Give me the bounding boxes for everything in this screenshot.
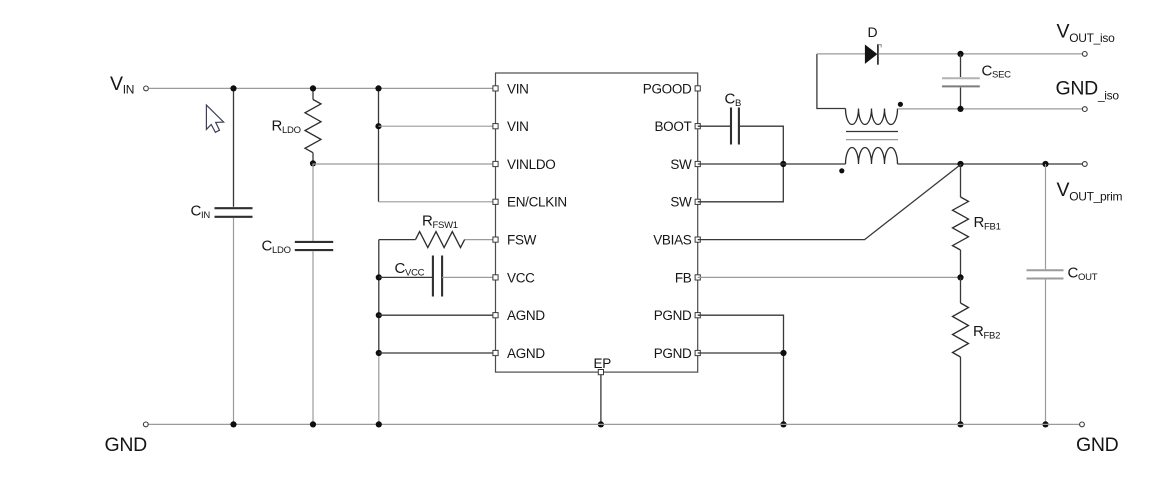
node VOUT_prim terminal bbox=[1082, 162, 1087, 167]
node VOUT_iso terminal bbox=[1082, 52, 1087, 57]
wire EN/CLKIN bbox=[379, 201, 496, 203]
pin AGND (left 8) bbox=[493, 350, 498, 355]
svg-text:VIN: VIN bbox=[507, 119, 529, 134]
wire AGND1 bbox=[379, 314, 496, 316]
wire diode anode bbox=[817, 53, 865, 55]
svg-text:AGND: AGND bbox=[507, 346, 545, 361]
resistor R_FSW1 bbox=[465, 239, 496, 241]
node junction SW/R_FB1 bbox=[957, 161, 963, 167]
wire GND rail bbox=[148, 423, 1079, 425]
pin EN/CLKIN (left 4) bbox=[493, 199, 498, 204]
pin VCC (left 6) bbox=[493, 275, 498, 280]
node junction ground/AGND rail bbox=[376, 421, 382, 427]
svg-text:VCC: VCC bbox=[507, 270, 535, 285]
svg-text:EP: EP bbox=[594, 356, 612, 371]
pin EP bbox=[598, 370, 603, 375]
mouse cursor bbox=[206, 105, 223, 132]
node junction BOOT/SW bbox=[780, 161, 786, 167]
IC U1 body bbox=[496, 73, 698, 372]
svg-text:GND: GND bbox=[1076, 434, 1119, 456]
pin VIN (left 1) bbox=[493, 86, 498, 91]
transformer T1 secondary polarity dot bbox=[898, 102, 903, 107]
wire VBIAS bbox=[698, 165, 961, 240]
node junction VIN2 bbox=[375, 123, 381, 129]
node junction VIN/C_IN bbox=[230, 85, 236, 91]
svg-text:SW: SW bbox=[670, 157, 692, 172]
node junction SW/C_OUT bbox=[1042, 161, 1048, 167]
wire EP to ground bbox=[600, 375, 602, 425]
svg-text:VBIAS: VBIAS bbox=[653, 233, 692, 248]
capacitor C_OUT bbox=[1045, 164, 1047, 269]
pin PGOOD (right 1) bbox=[695, 86, 700, 91]
svg-text:AGND: AGND bbox=[507, 308, 545, 323]
node GND_iso terminal bbox=[1082, 107, 1087, 112]
svg-text:SW: SW bbox=[670, 195, 692, 210]
capacitor C_SEC bbox=[960, 54, 962, 77]
node junction PGND bbox=[780, 350, 786, 356]
node junction ground/C_IN bbox=[230, 421, 236, 427]
node junction ground/C_LDO bbox=[310, 421, 316, 427]
svg-text:FB: FB bbox=[675, 270, 692, 285]
wire C_IN bottom stem bbox=[233, 218, 235, 424]
wire C_IN top stem bbox=[233, 88, 235, 206]
pin BOOT (right 2) bbox=[695, 124, 700, 129]
svg-text:FSW: FSW bbox=[507, 233, 537, 248]
wire PGND1 bbox=[698, 315, 784, 353]
node GND left terminal bbox=[143, 422, 148, 427]
svg-text:BOOT: BOOT bbox=[654, 119, 691, 134]
node junction VIN/R_LDO bbox=[310, 85, 316, 91]
transformer T1 primary winding bbox=[846, 148, 898, 165]
diode D bbox=[865, 45, 878, 64]
capacitor C_VCC bbox=[379, 276, 433, 278]
svg-text:PGOOD: PGOOD bbox=[643, 81, 692, 96]
wire VINLDO bbox=[313, 163, 496, 165]
pin PGND (right 8) bbox=[695, 350, 700, 355]
svg-text:EN/CLKIN: EN/CLKIN bbox=[507, 195, 567, 210]
pin VBIAS (right 5) bbox=[695, 237, 700, 242]
wire C_LDO stem bbox=[312, 163, 314, 240]
node junction FB bbox=[957, 274, 963, 280]
svg-text:VINLDO: VINLDO bbox=[507, 157, 555, 172]
node junction C_SEC top bbox=[957, 51, 963, 57]
pin PGND (right 7) bbox=[695, 313, 700, 318]
wire AGND2 bbox=[379, 352, 496, 354]
wire AGND rail bbox=[378, 240, 380, 353]
transformer T1 core bbox=[846, 131, 898, 133]
node junction C_SEC bottom bbox=[957, 106, 963, 112]
wire secondary left leg bbox=[817, 54, 846, 109]
capacitor C_IN bbox=[215, 207, 253, 209]
capacitor C_B bbox=[730, 108, 732, 145]
pin SW (right 4) bbox=[695, 199, 700, 204]
wire diode cathode to VOUT_iso bbox=[879, 53, 1083, 55]
svg-text:GND: GND bbox=[105, 434, 148, 456]
svg-text:PGND: PGND bbox=[654, 308, 692, 323]
node junction R_LDO/VINLDO bbox=[310, 160, 316, 166]
pin VINLDO (left 3) bbox=[493, 161, 498, 166]
svg-text:D: D bbox=[868, 24, 878, 40]
wire C_LDO to ground bbox=[312, 251, 314, 424]
resistor R_LDO bbox=[312, 88, 314, 99]
pin FB (right 6) bbox=[695, 275, 700, 280]
transformer T1 secondary winding bbox=[846, 109, 898, 125]
wire PGND2 to ground bbox=[698, 353, 784, 424]
wire VIN pin2 bbox=[379, 125, 496, 127]
pin VIN (left 2) bbox=[493, 124, 498, 129]
wire BOOT bbox=[698, 125, 731, 127]
pin AGND (left 7) bbox=[493, 313, 498, 318]
pin FSW (left 5) bbox=[493, 237, 498, 242]
svg-text:PGND: PGND bbox=[654, 346, 692, 361]
wire SW to VOUT_prim bbox=[898, 163, 1083, 165]
wire SW bbox=[698, 163, 846, 165]
node GND right terminal bbox=[1080, 422, 1085, 427]
node VIN input terminal bbox=[144, 86, 149, 91]
wire BOOT to SW2 bbox=[698, 126, 784, 202]
wire input rail down to EN/CLKIN bbox=[378, 88, 380, 201]
resistor R_FB2 bbox=[960, 277, 962, 303]
capacitor C_LDO bbox=[295, 241, 333, 243]
wire VIN rail bbox=[149, 87, 496, 89]
svg-text:VIN: VIN bbox=[507, 81, 529, 96]
pin SW (right 3) bbox=[695, 161, 700, 166]
wire FB bbox=[698, 276, 961, 278]
resistor R_FB1 bbox=[960, 164, 962, 197]
wire secondary to GND_iso bbox=[898, 108, 1083, 110]
transformer T1 primary polarity dot bbox=[839, 168, 844, 173]
